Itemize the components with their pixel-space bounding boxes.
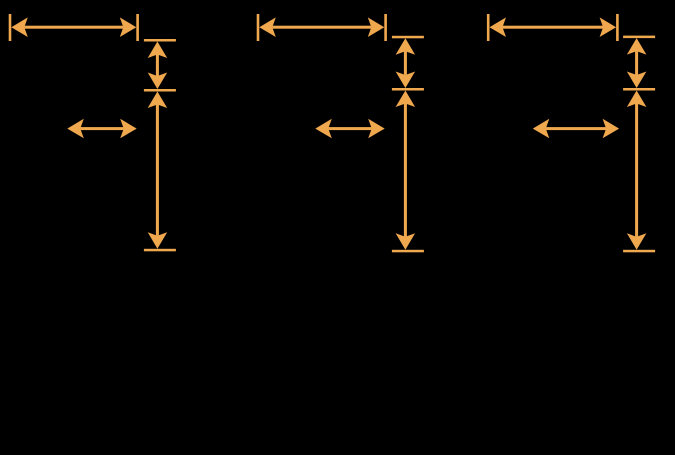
group 3: lower vertical double arrow (height) xyxy=(627,91,647,250)
group 2: advance-width arrow (top horizontal dimension) xyxy=(257,14,387,41)
group 3: bottom reference tick xyxy=(623,250,655,253)
group 1: bottom reference tick xyxy=(144,249,176,252)
group 1: side-bearing arrow (middle horizontal double arrow) xyxy=(67,119,136,139)
group 2: upper vertical double arrow (ascent gap) xyxy=(396,38,416,88)
group 2: side-bearing arrow (middle horizontal double arrow) xyxy=(315,119,384,139)
group 3: advance-width arrow (top horizontal dimension) xyxy=(487,14,619,41)
group 1: advance-width arrow (top horizontal dimension) xyxy=(9,14,139,41)
group 2: top reference tick xyxy=(392,36,424,39)
group 2: middle reference tick xyxy=(392,88,424,91)
group 2: bottom reference tick xyxy=(392,250,424,253)
group 3: side-bearing arrow (middle horizontal double arrow) xyxy=(533,119,619,139)
group 1: upper vertical double arrow (ascent gap) xyxy=(148,42,168,90)
group 3: top reference tick xyxy=(623,36,655,39)
group 1: middle reference tick xyxy=(144,89,176,92)
group 2: lower vertical double arrow (height) xyxy=(396,91,416,250)
group 3: upper vertical double arrow (ascent gap) xyxy=(627,38,647,88)
group 1: top reference tick xyxy=(144,39,176,42)
group 1: lower vertical double arrow (height) xyxy=(148,92,168,249)
group 3: middle reference tick xyxy=(623,88,655,91)
